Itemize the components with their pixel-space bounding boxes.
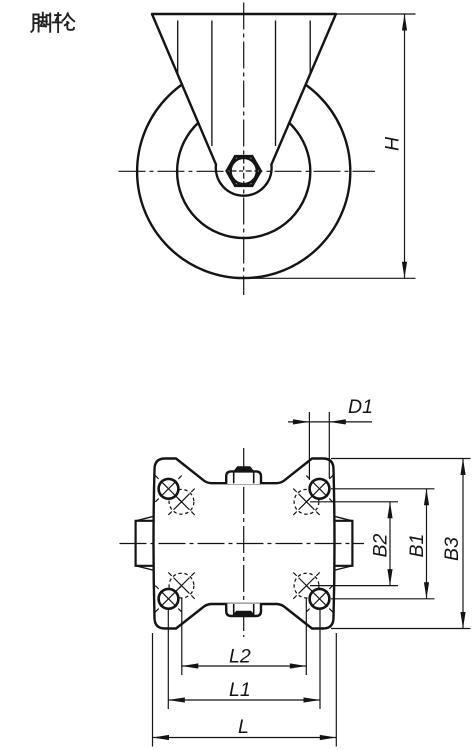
L1 extension lines (167, 610, 169, 709)
axle nut hexagon (227, 156, 261, 185)
L1 dimension line (168, 699, 320, 701)
svg-text:L1: L1 (229, 679, 251, 701)
B1 dimension line (426, 489, 428, 599)
bolt hole bottom-right (310, 589, 330, 609)
fork inner edge line right inner (275, 21, 277, 147)
H dimension line (404, 14, 406, 278)
B3 dimension line (462, 459, 464, 629)
脚 char: 卩 part (47, 15, 51, 24)
脚 char: 月 radical (31, 15, 33, 32)
fork inner edge line left inner (211, 21, 213, 147)
fork bracket (152, 14, 336, 196)
horizontal centerline top view (119, 170, 376, 172)
L2 extension lines (181, 598, 183, 675)
vertical centerline top view (243, 3, 245, 296)
bolt hole bottom-left (159, 589, 179, 609)
svg-text:L2: L2 (229, 646, 251, 668)
svg-text:B1: B1 (406, 534, 428, 558)
H arrow bottom (402, 262, 407, 279)
L dimension line (153, 737, 337, 739)
B2 dimension line (389, 502, 391, 586)
svg-text:D1: D1 (348, 396, 373, 418)
H dimension extension line top (337, 13, 416, 15)
轮 char: 仑 part (63, 13, 68, 20)
wheel outer circle (137, 65, 350, 278)
D1 extension lines (308, 412, 310, 480)
H arrow top (402, 14, 407, 31)
svg-text:B3: B3 (441, 537, 463, 561)
bottom fork mount block (226, 603, 261, 616)
脚 char: 去 part (42, 13, 44, 22)
L extension lines (152, 633, 154, 747)
left axle tab (136, 517, 154, 570)
D1 arrow left (293, 419, 310, 424)
bolt hole top-right (310, 479, 330, 499)
wheel hub circle (177, 105, 310, 238)
horizontal centerline bottom view (120, 543, 365, 545)
L2 dimension line (182, 665, 306, 667)
svg-text:H: H (382, 136, 404, 151)
H dimension extension line bottom (wheel tangent) (252, 277, 416, 279)
svg-text:B2: B2 (370, 533, 392, 557)
axle center cross (243, 158, 245, 185)
mounting plate outline (154, 459, 335, 629)
dashed counterbore circle top-right (293, 489, 319, 515)
fork inner edge line right outer (309, 21, 311, 75)
top fork mount block (226, 467, 261, 484)
dashed counterbore circle top-left (168, 489, 194, 515)
fork inner edge line left outer (177, 21, 179, 75)
D1 arrow right (329, 419, 346, 424)
bolt hole top-left (159, 479, 179, 499)
B2 extension lines (310, 501, 398, 503)
dashed counterbore circle bottom-left (168, 572, 194, 598)
right axle tab (334, 517, 352, 570)
svg-text:L: L (238, 716, 249, 738)
B1 extension lines (331, 488, 435, 490)
vertical centerline bottom view (243, 448, 245, 637)
D1 dimension line (288, 421, 372, 423)
B3 extension lines (331, 458, 471, 460)
axle circle (231, 158, 257, 184)
dashed counterbore circle bottom-right (293, 572, 319, 598)
title text 脚轮 (drawn as paths) (31, 13, 74, 32)
轮 char: 车 radical (55, 14, 61, 16)
